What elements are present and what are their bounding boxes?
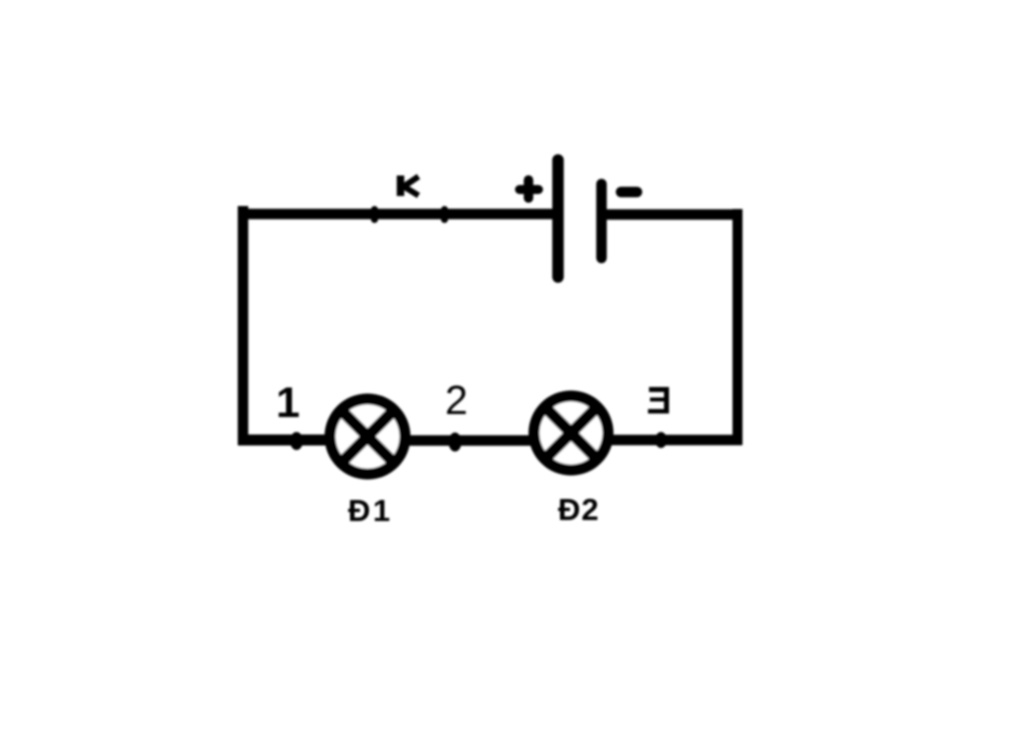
svg-text:Đ2: Đ2 (558, 492, 600, 527)
wire right vertical segment (733, 209, 743, 445)
svg-text:Đ1: Đ1 (348, 493, 393, 528)
node 1 junction dot (290, 432, 303, 450)
lamp D2 (529, 391, 614, 476)
wire segment between switch contacts (375, 209, 445, 220)
wire segment from battery negative plate to top-right corner (601, 209, 742, 220)
node 3 label (648, 387, 669, 414)
lamp D2 value label (558, 492, 600, 527)
battery - label (621, 187, 637, 198)
lamp D1 value label (348, 493, 393, 528)
svg-text:1: 1 (276, 379, 300, 427)
node 2 label (445, 377, 468, 423)
switch K label (401, 176, 419, 197)
battery BT1 positive plate (552, 160, 564, 277)
node 2 junction dot (449, 433, 462, 452)
wire segment from switch to battery positive plate (445, 209, 553, 220)
switch K contact tick 2 (441, 210, 448, 220)
battery + label (520, 180, 539, 198)
battery BT1 negative plate (596, 184, 607, 258)
wire top segment from left corner to switch (238, 209, 375, 220)
wire bottom segment between lamp D1 and lamp D2 (405, 435, 534, 446)
lamp D1 (325, 394, 411, 480)
wire left vertical segment (238, 206, 249, 445)
wire bottom segment from left corner to lamp D1 (238, 435, 330, 446)
svg-text:2: 2 (445, 377, 468, 423)
switch K contact tick 1 (371, 210, 378, 220)
node 3 junction dot (655, 432, 667, 448)
wire bottom segment from lamp D2 to right corner (609, 435, 742, 446)
node 1 label (276, 379, 300, 427)
